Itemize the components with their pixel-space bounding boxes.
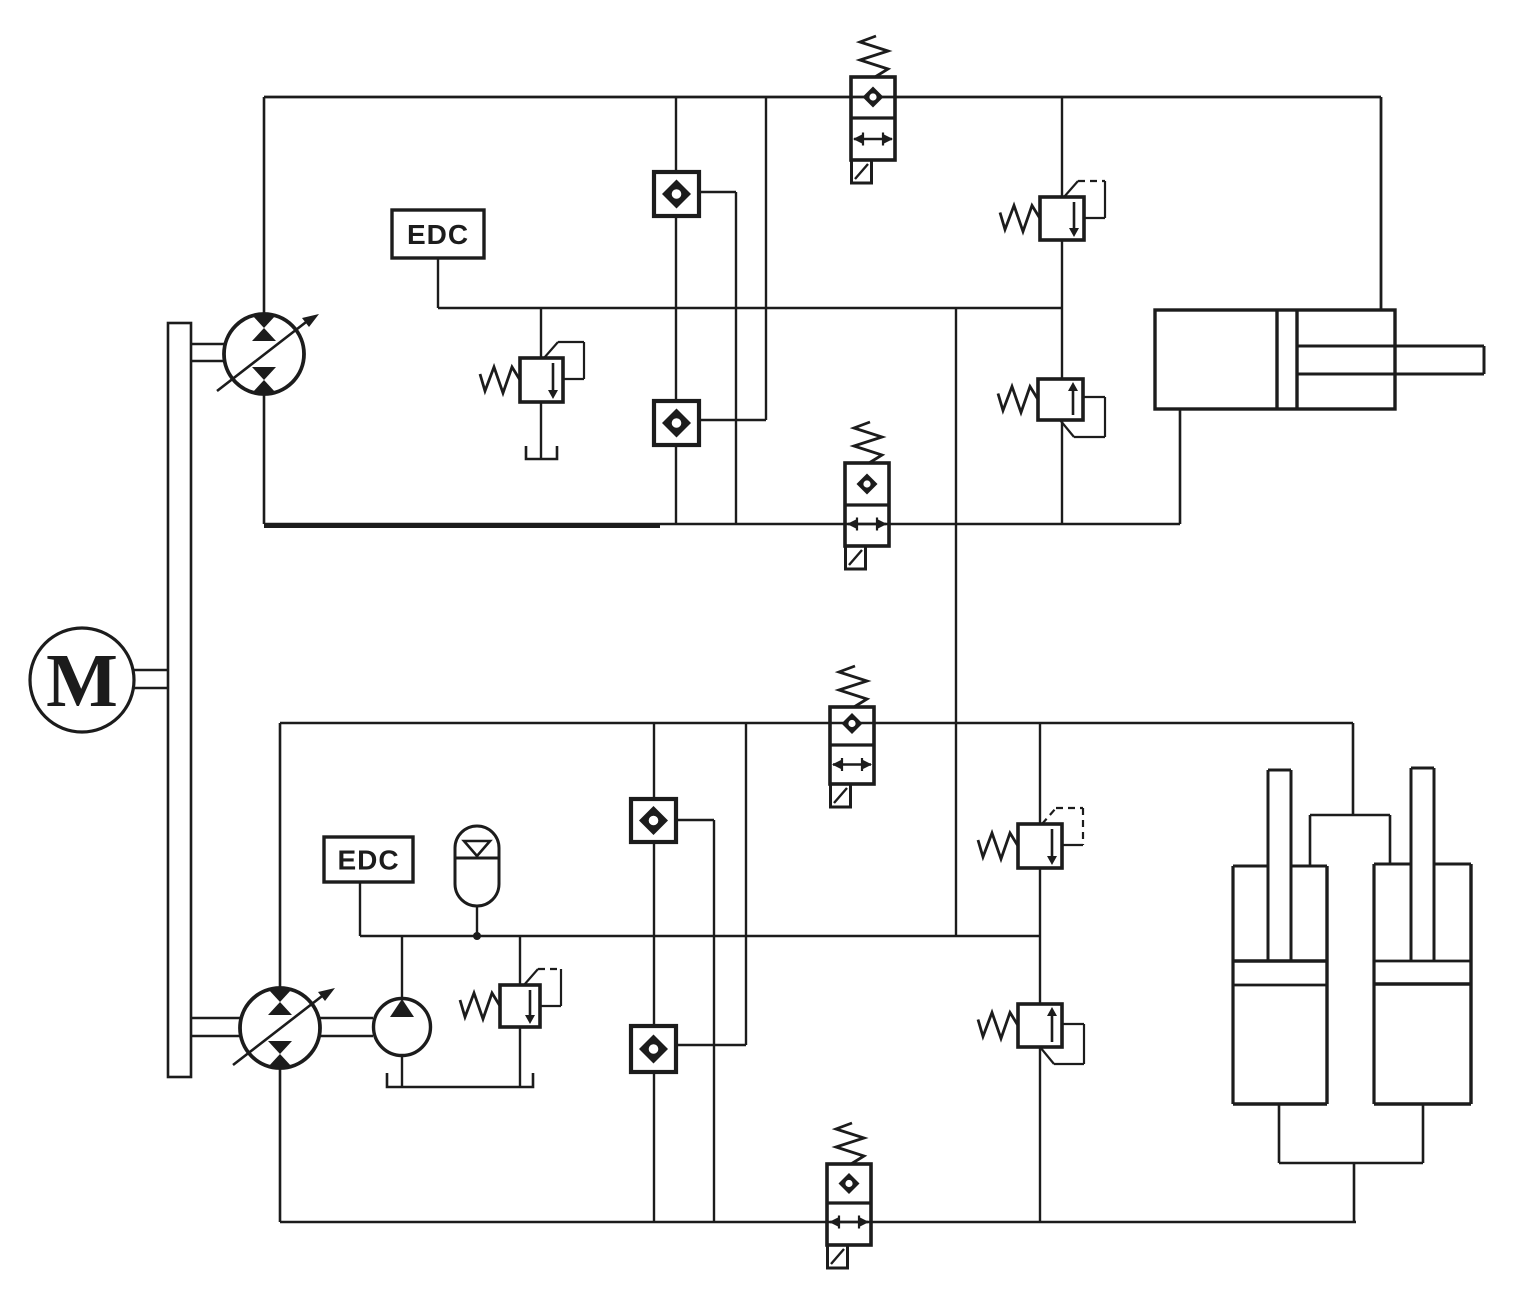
relief valve B (998, 379, 1105, 437)
relief valve C (978, 808, 1083, 868)
wire: CV2 branch up to pressure line (765, 97, 767, 420)
solenoid valve V3 (2/2, spring return) (830, 666, 874, 807)
twin cylinder manifold (1310, 815, 1390, 866)
wire: top circuit left edge / pump P1 port lines (263, 97, 266, 524)
solenoid valve V1 (2/2, spring return) (851, 36, 895, 183)
wire: check valve column CV3/CV4 (653, 723, 655, 1222)
relief valve A (1000, 181, 1105, 240)
wire: CV1 outlet (699, 191, 736, 193)
wire: top circuit pressure line (P1 outlet) (264, 96, 1381, 99)
accumulator ACC (455, 826, 499, 940)
check valve CV1 (654, 172, 699, 216)
svg-text:EDC: EDC (337, 845, 399, 876)
shaft coupling shaft-P2 (191, 1018, 240, 1036)
wire: top circuit return line (264, 523, 1180, 526)
wire: lower circuit left edge / pump P2 ports (279, 723, 282, 1222)
check valve CV4 (631, 1026, 676, 1072)
pump P2 (variable displacement) (233, 988, 335, 1068)
charge pump P3 (fixed) (374, 936, 431, 1086)
EDC controller box EDC2 (324, 837, 413, 882)
wire: check valve column CV1/CV2 (675, 97, 677, 524)
relief valve R1 (480, 342, 584, 402)
relief valve D (978, 1004, 1084, 1064)
wire: EDC2 control drop (359, 882, 361, 936)
wire: CV4 outlet (676, 1044, 746, 1046)
wire: cylinder C1 rod-end feed drop (1380, 97, 1383, 310)
wire: relief C/D column (1039, 723, 1041, 1222)
tank T1 under R1 (526, 446, 557, 459)
wire: CV3 outlet (676, 819, 714, 821)
wire: CV4 branch up (745, 723, 747, 1045)
relief valve R3 ports (519, 936, 521, 1086)
wire: inter-circuit link x=956 (955, 308, 957, 936)
wire: twin cylinder feed drop (1352, 723, 1355, 815)
wire: CV1 branch down to return (735, 192, 737, 524)
cylinder C2 (left, vertical rod up) (1233, 770, 1327, 1104)
wire: relief A/B column (1061, 97, 1063, 524)
svg-text:M: M (46, 639, 118, 723)
shaft coupling motor-shaft (134, 670, 168, 688)
relief valve R1 (pilot pressure, to tank) (540, 308, 542, 458)
check valve CV2 (654, 401, 699, 445)
wire: CV2 outlet (699, 419, 766, 421)
wire: lower circuit top line (280, 722, 1353, 725)
wire: CV3 branch down (713, 820, 715, 1222)
solenoid valve V4 (2/2, spring return) (827, 1123, 871, 1268)
wire: EDC1 pressure control line (438, 307, 1062, 309)
pump P1 (variable displacement) (217, 314, 319, 394)
EDC controller box EDC1 (392, 210, 484, 258)
check valve CV3 (631, 799, 676, 842)
shaft coupling motor-P1 (191, 344, 226, 361)
svg-text:EDC: EDC (407, 219, 469, 250)
drive shaft (168, 323, 191, 1077)
solenoid valve V2 (2/2, spring return) (845, 422, 889, 569)
motor M1 (30, 628, 134, 732)
cylinder C3 (right, vertical rod up) (1374, 768, 1471, 1104)
tank T2 (387, 1073, 533, 1087)
wire: cylinder C1 cap-end drop (1179, 409, 1182, 524)
wire: charge pressure line (360, 935, 1040, 937)
relief valve R3 (460, 969, 561, 1027)
wire: EDC1 control drop (437, 258, 439, 308)
wire: twin cylinder cap-end manifold (1279, 1104, 1423, 1222)
cylinder C1 (single rod, horizontal) (1155, 310, 1484, 409)
wire: return line thick overlay (264, 525, 660, 528)
shaft coupling P2-P3 (320, 1018, 373, 1036)
wire: lower circuit bottom line (280, 1221, 1356, 1224)
